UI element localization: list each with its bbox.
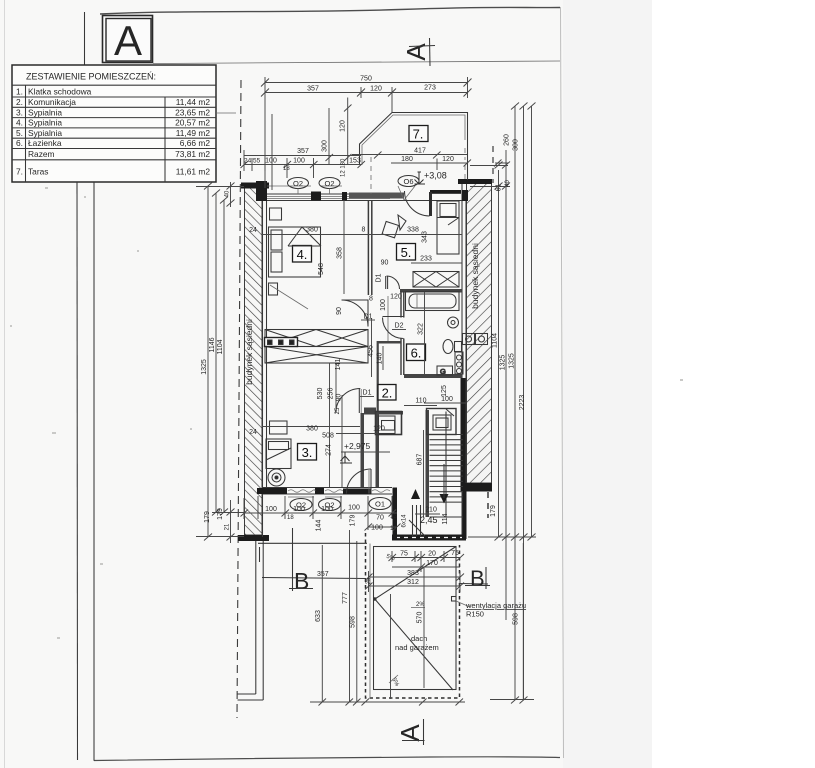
svg-text:12: 12 <box>390 525 398 532</box>
svg-text:100: 100 <box>293 506 305 513</box>
right page content edge <box>561 7 564 758</box>
two long vertical lines below table <box>76 182 79 760</box>
svg-text:153: 153 <box>349 157 361 164</box>
window sill small lines above wall near left <box>267 185 311 187</box>
svg-text:budynek sąsiedni: budynek sąsiedni <box>244 319 254 385</box>
right neighbour wall hatched <box>467 183 492 483</box>
svg-text:Sypialnia: Sypialnia <box>28 118 62 128</box>
svg-text:114: 114 <box>442 513 449 524</box>
bath fixtures <box>406 292 488 377</box>
svg-text:20: 20 <box>428 551 436 558</box>
svg-text:A: A <box>114 17 142 64</box>
terrace dim chain 417 / 180 120 <box>352 152 508 171</box>
svg-text:548: 548 <box>318 263 325 275</box>
svg-text:1104: 1104 <box>492 333 499 348</box>
interior dim lines/labels <box>262 200 466 517</box>
B-B section line <box>262 578 366 579</box>
svg-text:120: 120 <box>373 426 385 433</box>
svg-text:141: 141 <box>335 359 342 371</box>
svg-text:11,61 m2: 11,61 m2 <box>176 167 211 177</box>
svg-text:D1: D1 <box>364 314 373 321</box>
svg-text:6x14: 6x14 <box>402 514 408 528</box>
svg-text:5.: 5. <box>16 128 23 138</box>
svg-text:73,81 m2: 73,81 m2 <box>175 149 210 159</box>
svg-text:4.: 4. <box>16 118 23 128</box>
interior wall rooms 4/5 <box>367 201 369 296</box>
vertical line above table <box>84 12 86 65</box>
svg-text:Taras: Taras <box>28 167 48 177</box>
svg-text:260: 260 <box>504 134 511 146</box>
wall room5 / bath <box>400 289 462 293</box>
entry steps <box>409 505 425 536</box>
room 7 number box <box>409 126 428 142</box>
squiggle windows <box>288 490 315 493</box>
svg-text:5.: 5. <box>401 245 412 260</box>
svg-text:4.: 4. <box>297 247 308 262</box>
door D1 to room 5 <box>385 276 387 289</box>
svg-text:383: 383 <box>407 570 419 577</box>
svg-text:Sypialnia: Sypialnia <box>28 128 62 138</box>
wall outer/inner lines with window double lines <box>262 193 392 195</box>
svg-text:20,57 m2: 20,57 m2 <box>175 118 210 128</box>
svg-text:2,45: 2,45 <box>420 515 438 525</box>
svg-text:Klatka schodowa: Klatka schodowa <box>28 87 92 97</box>
svg-text:1325: 1325 <box>509 353 516 369</box>
svg-text:Sypialnia: Sypialnia <box>28 107 62 117</box>
room 3 furniture <box>266 421 291 486</box>
room table <box>12 65 216 182</box>
svg-text:O2: O2 <box>293 179 303 188</box>
stair bottom wall black <box>392 535 466 541</box>
svg-text:11,44 m2: 11,44 m2 <box>176 97 211 107</box>
svg-text:1325: 1325 <box>500 355 507 371</box>
svg-text:nad garażem: nad garażem <box>395 643 439 652</box>
svg-text:B: B <box>294 568 309 594</box>
svg-text:598: 598 <box>513 613 520 625</box>
svg-text:312: 312 <box>407 579 419 586</box>
svg-text:170: 170 <box>426 560 438 567</box>
door D1 to room 3 <box>358 389 360 413</box>
svg-text:530: 530 <box>317 388 324 400</box>
svg-text:100: 100 <box>380 299 387 311</box>
O6 door swing arc <box>405 191 430 216</box>
svg-text:144: 144 <box>316 520 323 532</box>
right neighbour wall black caps <box>458 179 492 184</box>
svg-text:40: 40 <box>505 180 511 187</box>
vent <box>452 597 457 602</box>
svg-text:750: 750 <box>360 76 372 83</box>
door D2 to bath <box>383 316 404 318</box>
svg-text:O2: O2 <box>324 179 334 188</box>
svg-text:2223: 2223 <box>519 395 526 411</box>
383 / 312 dim lines <box>369 576 461 578</box>
solid rect <box>374 547 457 690</box>
left dimension fan <box>196 182 244 543</box>
building outer wall lines right <box>461 184 463 539</box>
east wall black at stairs <box>461 378 466 491</box>
north wall band <box>256 181 468 216</box>
svg-text:417: 417 <box>414 148 426 155</box>
svg-text:40: 40 <box>225 190 231 197</box>
porch front edge line <box>258 542 367 544</box>
svg-text:11,49 m2: 11,49 m2 <box>176 128 211 138</box>
row lines <box>12 96 216 98</box>
bottom page edge wavy line <box>94 757 560 761</box>
svg-text:456: 456 <box>368 345 375 357</box>
window label ellipses north <box>288 178 309 189</box>
left dim chain at y 164 (24,55,100,18,100,153) <box>241 150 366 178</box>
svg-text:D2: D2 <box>395 323 404 330</box>
svg-text:25: 25 <box>366 577 372 584</box>
terrace outline (room 7) <box>360 113 468 195</box>
dashed vertical right of terrace <box>492 146 494 183</box>
room number boxes <box>293 246 312 263</box>
svg-text:179: 179 <box>217 508 224 520</box>
svg-text:25: 25 <box>335 407 341 414</box>
svg-text:274: 274 <box>326 444 333 456</box>
svg-text:357: 357 <box>307 86 319 93</box>
svg-text:8: 8 <box>369 296 373 303</box>
building outer wall lines left <box>262 188 264 537</box>
svg-text:120: 120 <box>340 120 347 132</box>
corridor south wall / room2 <box>364 408 403 415</box>
svg-text:90: 90 <box>336 394 343 402</box>
svg-text:179: 179 <box>350 515 357 527</box>
svg-text:D1: D1 <box>363 390 372 397</box>
A marker box top-left <box>103 16 153 65</box>
svg-text:358: 358 <box>337 247 344 259</box>
svg-text:R150: R150 <box>466 610 484 619</box>
svg-text:1146: 1146 <box>209 337 216 352</box>
svg-text:100: 100 <box>265 506 277 513</box>
column dividers <box>25 85 27 182</box>
svg-text:100: 100 <box>321 506 333 513</box>
svg-text:55: 55 <box>253 158 261 165</box>
bathtub <box>406 292 460 311</box>
bath south wall <box>404 374 462 378</box>
svg-text:343: 343 <box>422 231 429 243</box>
svg-text:G: G <box>440 367 446 376</box>
svg-text:A: A <box>395 724 425 742</box>
left neighbour wall black caps <box>241 183 269 189</box>
line from A box to right <box>153 61 560 64</box>
svg-text:120: 120 <box>390 294 402 301</box>
svg-text:300: 300 <box>513 139 520 151</box>
room5 wardrobe with X <box>413 272 459 288</box>
south dim chain y 513 <box>241 496 401 531</box>
svg-text:100: 100 <box>265 158 277 165</box>
stairs <box>427 409 464 518</box>
svg-text:O1: O1 <box>375 500 385 509</box>
svg-text:100: 100 <box>348 505 360 512</box>
left page edge line <box>4 0 6 768</box>
top section mark A (rotated) <box>401 38 435 66</box>
svg-text:13: 13 <box>390 513 398 520</box>
title row underline <box>12 84 216 86</box>
svg-text:24: 24 <box>244 158 252 165</box>
dashed property line left <box>237 80 241 718</box>
entry door arc <box>370 469 372 494</box>
svg-text:180: 180 <box>401 156 413 163</box>
svg-text:90: 90 <box>381 260 389 267</box>
svg-text:18: 18 <box>283 166 290 172</box>
top page edge wavy line <box>100 7 560 14</box>
hall void nested rects <box>376 412 402 435</box>
room 5 furniture: bed vertical <box>382 201 459 254</box>
svg-text:110: 110 <box>415 398 426 405</box>
dashed line below right wall <box>487 492 489 518</box>
svg-text:24: 24 <box>249 429 257 436</box>
fixtures against right wall <box>463 334 475 345</box>
svg-text:6.: 6. <box>411 346 422 361</box>
bottom dimension verticals <box>310 530 523 706</box>
svg-text:338: 338 <box>407 227 419 234</box>
svg-text:357: 357 <box>317 571 329 578</box>
dashed outer boundary <box>366 533 460 698</box>
svg-text:B: B <box>470 566 485 591</box>
svg-text:120: 120 <box>370 86 382 93</box>
entry recess walls <box>393 488 398 541</box>
svg-text:777: 777 <box>342 592 349 604</box>
svg-text:ZESTAWIENIE POMIESZCZEŃ:: ZESTAWIENIE POMIESZCZEŃ: <box>26 72 156 82</box>
svg-text:18: 18 <box>287 515 294 521</box>
svg-text:6,66 m2: 6,66 m2 <box>180 138 211 148</box>
svg-text:75: 75 <box>451 550 459 557</box>
svg-text:357: 357 <box>297 148 309 155</box>
svg-text:687: 687 <box>417 454 424 466</box>
door D1 to room 4 (arc into room4) <box>342 300 369 327</box>
svg-text:7.: 7. <box>16 167 23 177</box>
svg-text:O6: O6 <box>403 177 413 186</box>
corridor wardrobes with X <box>265 330 369 364</box>
svg-text:233: 233 <box>420 256 432 263</box>
sill lines below <box>288 496 314 498</box>
svg-text:570: 570 <box>417 612 424 624</box>
svg-text:90: 90 <box>336 307 343 315</box>
garage top dim chain <box>392 557 460 559</box>
wall corridor/room3 vertical <box>361 413 365 488</box>
svg-text:1.: 1. <box>16 87 23 97</box>
svg-text:23,65 m2: 23,65 m2 <box>175 107 210 117</box>
svg-text:dach: dach <box>411 634 427 643</box>
svg-text:8: 8 <box>362 227 366 234</box>
svg-text:3.: 3. <box>302 445 313 460</box>
svg-text:179: 179 <box>204 511 211 523</box>
svg-text:75: 75 <box>400 551 408 558</box>
small boxes with dots <box>265 338 298 347</box>
svg-text:70: 70 <box>376 515 384 522</box>
svg-text:380: 380 <box>306 426 318 433</box>
room 4 furniture: bed <box>269 208 322 309</box>
svg-text:1325: 1325 <box>201 359 208 375</box>
svg-text:Razem: Razem <box>28 149 55 159</box>
scan speckles <box>10 187 683 639</box>
roof diagonals <box>373 597 376 600</box>
svg-text:300: 300 <box>322 140 329 152</box>
svg-text:3.: 3. <box>16 107 23 117</box>
svg-text:508: 508 <box>322 433 334 440</box>
right dimension fan <box>468 103 536 704</box>
svg-text:7.: 7. <box>413 127 424 142</box>
south window label ellipses <box>290 499 312 511</box>
desk chair tilted <box>382 221 398 237</box>
masonry black chunks <box>256 181 267 201</box>
svg-text:Łazienka: Łazienka <box>28 138 62 148</box>
garage roof below <box>365 533 526 699</box>
svg-text:598: 598 <box>350 616 357 628</box>
left neighbour wall hatched <box>245 187 263 535</box>
washbasin circle <box>448 317 459 328</box>
stair arrows <box>411 489 420 499</box>
svg-text:380: 380 <box>306 227 318 234</box>
left terrace strip below <box>238 541 264 700</box>
svg-text:1104: 1104 <box>217 339 224 354</box>
svg-text:Komunikacja: Komunikacja <box>28 97 76 107</box>
svg-text:2.: 2. <box>16 97 23 107</box>
svg-text:633: 633 <box>315 610 322 622</box>
svg-text:322: 322 <box>418 323 425 335</box>
svg-text:21: 21 <box>225 523 231 530</box>
G box <box>437 366 453 375</box>
svg-text:140: 140 <box>377 353 384 365</box>
svg-text:+2,975: +2,975 <box>344 441 371 451</box>
top dimension chain 750 <box>261 77 472 112</box>
svg-text:61: 61 <box>496 184 503 192</box>
570 vertical dim <box>423 567 425 688</box>
svg-text:179: 179 <box>490 505 497 517</box>
vertical dim lines above terrace left <box>265 98 352 191</box>
rows text <box>16 87 210 177</box>
bottom section mark A (rotated) <box>395 719 425 745</box>
bath west wall <box>400 291 402 318</box>
svg-text:2.: 2. <box>382 386 393 401</box>
corridor/stair wall vertical <box>376 414 380 488</box>
svg-text:125: 125 <box>441 385 448 397</box>
toilet <box>443 340 453 354</box>
svg-text:+3,08: +3,08 <box>424 171 447 181</box>
svg-text:24: 24 <box>249 227 257 234</box>
svg-text:100: 100 <box>371 525 383 532</box>
svg-text:210: 210 <box>425 507 437 514</box>
corridor east wall upper <box>377 341 379 414</box>
svg-text:273: 273 <box>424 85 436 92</box>
south wall band <box>257 488 392 498</box>
svg-text:D1: D1 <box>376 273 383 282</box>
svg-text:256: 256 <box>328 388 335 400</box>
stair west wall <box>426 410 430 517</box>
leader line from table right edge <box>216 112 236 114</box>
svg-text:12 180: 12 180 <box>341 158 347 177</box>
svg-text:100: 100 <box>293 158 305 165</box>
svg-text:6.: 6. <box>16 138 23 148</box>
svg-text:120: 120 <box>442 156 454 163</box>
svg-text:budynek sąsiedni: budynek sąsiedni <box>470 243 480 309</box>
